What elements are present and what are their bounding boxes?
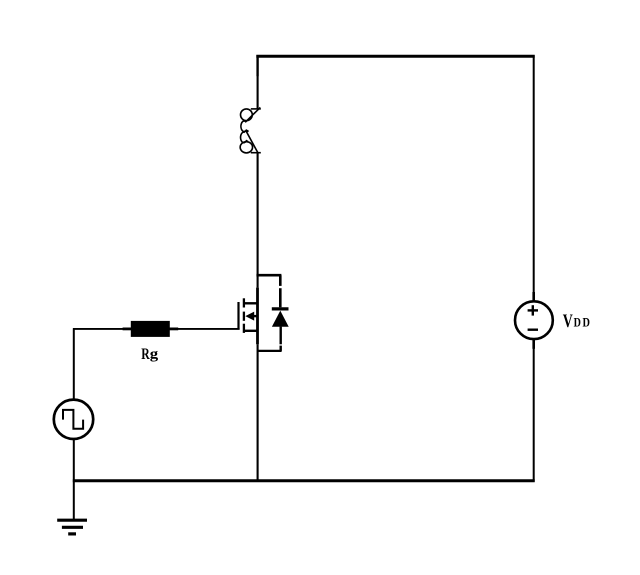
svg-text:V: V [563, 310, 573, 332]
svg-text:g: g [150, 346, 158, 362]
svg-text:D: D [574, 317, 581, 330]
svg-text:D: D [583, 317, 590, 330]
